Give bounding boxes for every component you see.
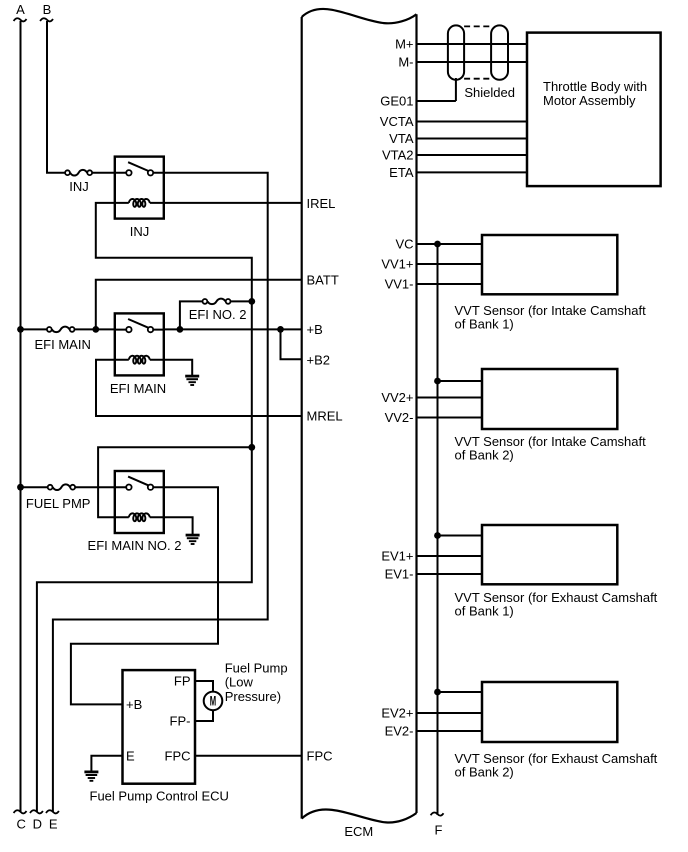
svg-text:Throttle Body with: Throttle Body with	[543, 79, 647, 94]
svg-text:+B2: +B2	[307, 352, 331, 367]
svg-text:M+: M+	[395, 37, 413, 52]
svg-text:FPC: FPC	[307, 748, 333, 763]
svg-text:M: M	[210, 694, 216, 709]
svg-text:MREL: MREL	[307, 409, 343, 424]
svg-text:ECM: ECM	[344, 824, 373, 839]
svg-text:INJ: INJ	[130, 224, 150, 239]
svg-text:E: E	[49, 816, 58, 831]
svg-text:Fuel Pump: Fuel Pump	[225, 660, 288, 675]
svg-text:C: C	[17, 816, 26, 831]
svg-text:Fuel Pump Control ECU: Fuel Pump Control ECU	[90, 789, 229, 804]
svg-text:F: F	[435, 822, 443, 837]
svg-text:EFI MAIN: EFI MAIN	[35, 337, 91, 352]
svg-text:ETA: ETA	[389, 165, 414, 180]
svg-text:EV2-: EV2-	[385, 724, 414, 739]
svg-text:D: D	[33, 816, 42, 831]
svg-text:(Low: (Low	[225, 675, 254, 690]
svg-text:VV2+: VV2+	[381, 390, 413, 405]
svg-text:GE01: GE01	[380, 94, 413, 109]
svg-text:A: A	[16, 2, 25, 17]
svg-text:FUEL PMP: FUEL PMP	[26, 496, 91, 511]
svg-text:+B: +B	[126, 697, 142, 712]
svg-text:EV2+: EV2+	[381, 706, 413, 721]
svg-text:+B: +B	[307, 322, 323, 337]
svg-text:VV1-: VV1-	[385, 277, 414, 292]
svg-text:Pressure): Pressure)	[225, 689, 281, 704]
svg-text:VV2-: VV2-	[385, 410, 414, 425]
svg-text:VTA: VTA	[389, 131, 414, 146]
svg-text:of Bank 2): of Bank 2)	[455, 448, 514, 463]
svg-text:of Bank 1): of Bank 1)	[455, 604, 514, 619]
svg-text:EV1+: EV1+	[381, 549, 413, 564]
svg-text:VV1+: VV1+	[381, 257, 413, 272]
svg-text:of Bank 2): of Bank 2)	[455, 765, 514, 780]
svg-text:INJ: INJ	[69, 179, 89, 194]
svg-text:of Bank 1): of Bank 1)	[455, 317, 514, 332]
svg-text:EFI MAIN NO. 2: EFI MAIN NO. 2	[88, 538, 182, 553]
svg-text:Motor Assembly: Motor Assembly	[543, 93, 636, 108]
svg-text:FPC: FPC	[165, 748, 191, 763]
svg-text:BATT: BATT	[307, 272, 339, 287]
svg-text:VTA2: VTA2	[382, 148, 414, 163]
svg-text:FP: FP	[174, 674, 191, 689]
svg-text:EFI MAIN: EFI MAIN	[110, 381, 166, 396]
svg-text:M-: M-	[398, 55, 413, 70]
svg-text:VC: VC	[395, 237, 413, 252]
svg-text:VCTA: VCTA	[380, 114, 414, 129]
svg-text:FP-: FP-	[170, 714, 191, 729]
svg-text:EFI NO. 2: EFI NO. 2	[189, 307, 247, 322]
svg-text:B: B	[43, 2, 52, 17]
svg-text:E: E	[126, 748, 135, 763]
svg-text:EV1-: EV1-	[385, 567, 414, 582]
svg-text:Shielded: Shielded	[464, 85, 515, 100]
svg-text:IREL: IREL	[307, 196, 336, 211]
